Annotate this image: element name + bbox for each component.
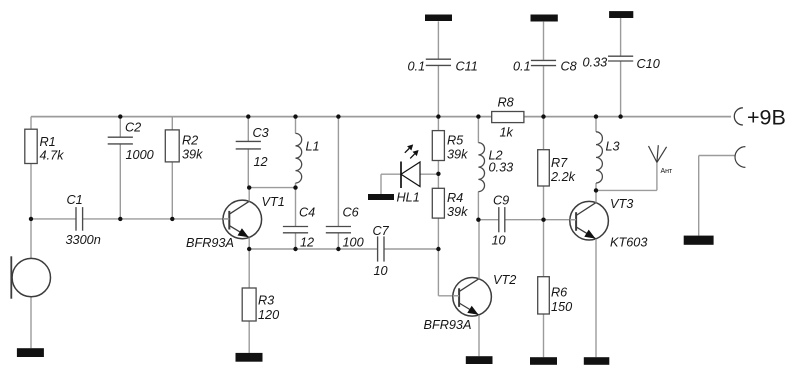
svg-text:0.33: 0.33 [583,56,608,70]
svg-text:3300n: 3300n [66,233,101,247]
svg-text:HL1: HL1 [397,191,420,205]
svg-text:39k: 39k [447,205,468,219]
svg-text:10: 10 [374,264,388,278]
svg-text:+9В: +9В [747,106,786,130]
svg-text:Ант: Ант [661,168,674,175]
svg-text:0.1: 0.1 [408,60,426,74]
svg-text:2.2k: 2.2k [550,170,576,184]
svg-text:L3: L3 [606,140,620,154]
svg-text:BFR93A: BFR93A [424,318,472,332]
svg-text:C7: C7 [373,224,390,238]
svg-text:C9: C9 [493,194,509,208]
svg-text:VT1: VT1 [262,195,285,209]
svg-text:10: 10 [492,234,506,248]
svg-text:39k: 39k [182,148,203,162]
svg-text:BFR93A: BFR93A [186,236,234,250]
svg-text:1k: 1k [500,126,514,140]
svg-text:C10: C10 [637,57,660,71]
svg-text:1000: 1000 [126,148,154,162]
svg-text:150: 150 [551,300,572,314]
svg-text:0.1: 0.1 [513,60,531,74]
svg-text:120: 120 [258,308,279,322]
svg-text:100: 100 [343,236,364,250]
svg-text:0.33: 0.33 [489,161,514,175]
svg-text:12: 12 [254,155,268,169]
svg-text:C1: C1 [67,193,83,207]
svg-text:39k: 39k [447,148,468,162]
svg-text:R7: R7 [551,156,568,170]
svg-text:VT2: VT2 [493,273,516,287]
svg-text:C6: C6 [343,206,360,220]
svg-text:12: 12 [300,236,314,250]
svg-text:C11: C11 [456,60,478,74]
svg-text:R8: R8 [498,96,514,110]
svg-text:4.7k: 4.7k [40,149,65,163]
svg-text:R5: R5 [447,134,464,148]
svg-text:C3: C3 [253,126,269,140]
svg-text:R3: R3 [258,294,274,308]
svg-text:R4: R4 [447,191,463,205]
svg-text:L1: L1 [306,140,320,154]
svg-text:C4: C4 [299,206,315,220]
svg-text:R2: R2 [182,134,198,148]
svg-text:C2: C2 [125,121,141,135]
svg-text:C8: C8 [561,60,577,74]
svg-text:R6: R6 [551,286,568,300]
svg-text:KT603: KT603 [610,236,647,250]
svg-text:VT3: VT3 [610,197,633,211]
svg-text:R1: R1 [40,135,56,149]
